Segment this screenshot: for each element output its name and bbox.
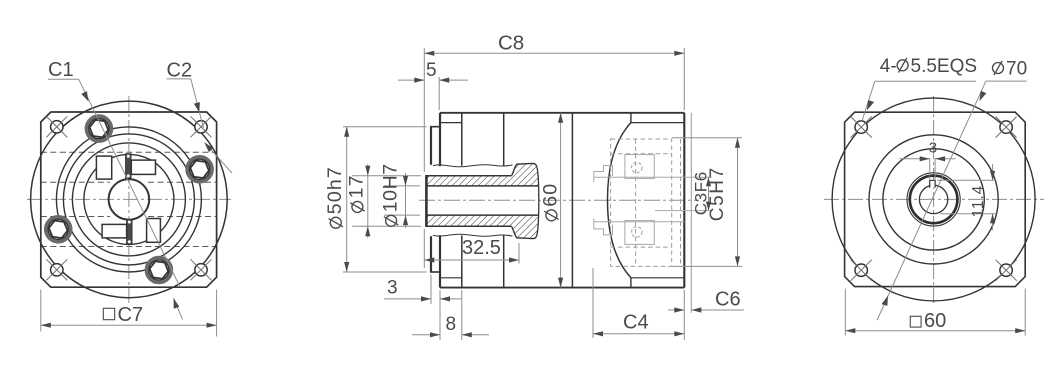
rear face xyxy=(683,113,685,288)
svg-text:8: 8 xyxy=(446,314,457,335)
flange square with chamfered corners xyxy=(845,112,1026,286)
centerline horizontal xyxy=(824,198,1044,200)
dia70 underline xyxy=(986,80,1027,82)
shaft tip face xyxy=(425,175,428,227)
clamp slit bottom (dark) xyxy=(127,220,132,245)
svg-text:C1: C1 xyxy=(48,59,74,81)
circle r64.6 xyxy=(869,135,998,264)
svg-text:3: 3 xyxy=(929,140,937,157)
dia70 arrowhead at circle lower-left xyxy=(881,296,888,307)
shaft OD top line xyxy=(426,175,512,177)
dim C4 xyxy=(593,268,684,340)
clamp screw rect top right xyxy=(131,160,155,174)
circle r56.5 xyxy=(72,143,185,256)
hollow shaft hatched section bottom xyxy=(426,215,539,239)
ext line shaft tip xyxy=(423,48,425,268)
corner hole TR xyxy=(191,116,212,137)
chamfer circle r26.6 xyxy=(907,173,960,226)
rear square chamfer lines xyxy=(631,122,684,124)
shaft bore top line xyxy=(426,185,539,187)
shaft OD bottom line xyxy=(426,225,512,227)
bell flare outline top xyxy=(512,163,537,175)
flange square with chamfered corners xyxy=(41,112,217,287)
keyway slot outline xyxy=(930,180,935,188)
keyway slot white fill xyxy=(930,181,934,188)
C2 leader arrowhead xyxy=(194,102,202,113)
dim dia10H7 xyxy=(379,163,420,228)
pilot boss bottom edge xyxy=(430,271,440,273)
front plate chamfer lines xyxy=(440,122,462,124)
dim 8 (plate) xyxy=(412,290,489,340)
clamp screw rect bottom left xyxy=(102,224,127,238)
svg-text:5: 5 xyxy=(426,60,437,81)
svg-text:10H7: 10H7 xyxy=(379,163,401,212)
centerline vertical xyxy=(933,96,935,305)
dia70 long diagonal leader xyxy=(877,81,986,320)
svg-text:C2: C2 xyxy=(167,60,193,82)
input pilot bold circle xyxy=(910,176,958,224)
clamp screw head bottom right xyxy=(147,219,161,243)
centerline horizontal xyxy=(27,198,231,200)
shaft bore bottom line xyxy=(426,214,539,216)
dim 5 xyxy=(398,60,468,110)
svg-text:60: 60 xyxy=(540,183,562,207)
dim C3F6 xyxy=(692,171,712,215)
circle r50.7 xyxy=(883,149,984,250)
label dia70 xyxy=(993,59,1028,80)
circle r72.5 xyxy=(56,127,201,272)
C1 leader underline xyxy=(48,78,79,80)
svg-text:C8: C8 xyxy=(498,32,524,55)
clamp slit top (dark) xyxy=(126,154,131,179)
dim dia17 xyxy=(346,164,421,238)
dim 3 (boss) xyxy=(384,275,462,341)
svg-text:C7: C7 xyxy=(118,304,144,326)
label 4-dia5.5EQS xyxy=(880,56,977,77)
hidden dashed line lower-mid xyxy=(41,216,110,218)
corner hole TR xyxy=(996,117,1017,138)
pilot boss top edge xyxy=(430,126,440,128)
svg-text:C5H7: C5H7 xyxy=(707,166,728,221)
motor face ghost line xyxy=(690,113,692,313)
housing seam 2 xyxy=(503,113,505,288)
hidden coupling step top xyxy=(594,166,613,183)
dimension square-C7 xyxy=(41,290,217,337)
hidden screw pocket top xyxy=(625,155,654,179)
svg-text:4-: 4- xyxy=(880,56,897,77)
break-out wavy line bottom xyxy=(433,234,513,236)
housing seam 1 xyxy=(461,113,463,288)
outer circle xyxy=(31,101,228,298)
dimension square-60 xyxy=(845,289,1025,336)
slit relief dots xyxy=(127,155,130,158)
body bottom edge xyxy=(440,287,684,289)
bell flare outline bottom xyxy=(512,226,537,238)
svg-text:17: 17 xyxy=(346,174,368,198)
hex bolt top xyxy=(86,116,111,141)
svg-text:C6: C6 xyxy=(715,289,741,311)
4-dia5.5EQS arrowhead xyxy=(867,100,874,110)
bolt circle dia70 xyxy=(832,98,1035,301)
svg-text:50h7: 50h7 xyxy=(324,166,346,214)
C2 leader line xyxy=(191,79,204,128)
clamp screw head top left xyxy=(96,156,111,179)
corner hole BL xyxy=(851,260,872,281)
C2 leader underline xyxy=(167,78,191,80)
hidden dashed line upper-mid xyxy=(41,181,110,183)
dia70 arrowhead upper xyxy=(978,91,987,103)
corner hole BR xyxy=(996,260,1017,281)
hex bolt bottom xyxy=(146,258,171,283)
centerline vertical xyxy=(128,96,130,303)
corner hole BL xyxy=(46,259,67,280)
hidden coupling step bottom xyxy=(594,218,613,235)
dim 32.5 xyxy=(424,237,519,264)
dim dia50h7 xyxy=(324,127,427,272)
front plate face xyxy=(439,113,441,288)
leader arrow at outer circle near TR xyxy=(203,140,232,173)
keyway width dim 3 xyxy=(900,140,956,180)
svg-text:5.5EQS: 5.5EQS xyxy=(911,56,978,77)
svg-text:11.4: 11.4 xyxy=(970,185,987,218)
rear square corner verticals xyxy=(630,113,632,288)
hidden screw pocket bottom xyxy=(625,221,654,245)
pilot boss face xyxy=(430,127,432,272)
hollow shaft hatched section top xyxy=(426,163,539,186)
centerline of shaft axis xyxy=(419,199,699,201)
hidden screw circle bottom xyxy=(632,227,642,237)
corner hole BR xyxy=(191,259,212,280)
hidden dashed line top xyxy=(41,151,217,153)
housing seam 3 xyxy=(571,113,573,288)
C1 leader arrowhead xyxy=(81,91,91,103)
hidden recess dashed rect xyxy=(611,139,681,266)
body top edge xyxy=(440,112,684,114)
dim C6 xyxy=(668,289,744,313)
hex bolt right xyxy=(187,157,212,182)
corner hole TL xyxy=(46,116,67,137)
input bore circle xyxy=(919,185,947,213)
bore circle xyxy=(109,179,150,220)
C1 leader diagonal line xyxy=(79,79,180,287)
hex bolt left xyxy=(46,217,71,242)
corner hole TL xyxy=(851,117,872,138)
hidden dashed line bottom xyxy=(41,246,217,248)
bell right freehand edge xyxy=(537,167,539,235)
svg-text:70: 70 xyxy=(1006,59,1027,80)
keyway depth dim 11.4 xyxy=(937,164,997,230)
svg-text:C4: C4 xyxy=(623,312,649,334)
svg-text:32.5: 32.5 xyxy=(462,237,501,259)
dim C8 xyxy=(424,32,684,111)
svg-text:3: 3 xyxy=(387,278,398,299)
hidden screw circle top xyxy=(632,163,642,173)
circle r65.5 xyxy=(63,134,194,265)
4-dia5.5EQS leader line xyxy=(862,81,875,121)
4-dia5.5EQS underline xyxy=(875,80,976,82)
adapter cast curve xyxy=(608,123,631,278)
dim C5H7 xyxy=(672,138,742,267)
leader arrow at outer circle near BL xyxy=(174,298,183,319)
hub circle r45 xyxy=(84,154,174,244)
hidden motor bore lines xyxy=(594,176,712,178)
svg-text:60: 60 xyxy=(924,310,946,332)
dim dia60 xyxy=(540,113,564,288)
break-out wavy line top xyxy=(433,165,513,167)
